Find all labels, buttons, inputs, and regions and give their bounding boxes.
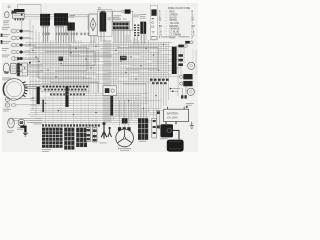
label: switch table header: [113, 18, 127, 21]
switch: clutch lever switch: [2, 48, 23, 54]
spark plugs: [181, 95, 187, 98]
harness end connector (dark, below band): [110, 96, 113, 116]
wire: coil leads: [170, 86, 186, 95]
lamp: rear right turn signal: [188, 62, 195, 69]
connector bar (6P, centre): [65, 86, 68, 107]
lamp: position lamp: [2, 55, 23, 61]
svg-text:O: O: [159, 29, 161, 31]
neutral / gear switch table: [138, 118, 148, 141]
svg-text:BLACK: BLACK: [170, 16, 178, 19]
svg-text:LG: LG: [192, 34, 195, 36]
tail light label: [186, 103, 194, 106]
svg-text:O: O: [192, 29, 194, 31]
headlight: [3, 79, 27, 100]
speedometer lamp body: [5, 12, 10, 18]
switch: front brake light switch: [2, 41, 23, 47]
label: regulator: [108, 18, 112, 21]
svg-text:BR: BR: [192, 26, 196, 28]
starter relay box: [103, 86, 117, 96]
switch row above ignition: [15, 57, 20, 60]
svg-text:LB: LB: [159, 32, 162, 34]
wire junctions: [29, 44, 164, 116]
rectifier box with diode bridge: [89, 14, 97, 36]
legend: wire colour table: [159, 8, 195, 39]
instrument cluster housing: [12, 13, 24, 18]
svg-text:BROWN: BROWN: [170, 26, 179, 28]
connector stubs right of bar: [178, 54, 183, 66]
wire harness band (main loom): [103, 40, 112, 122]
wire bundle: vertical harness runs: [30, 20, 196, 125]
main fuse (dark): [121, 9, 130, 13]
alternator coil connector (dark): [122, 118, 128, 123]
connector strip row (secondary): [50, 94, 85, 96]
connector: harness lead 2: [178, 45, 187, 48]
regulator (dark canister): [100, 11, 107, 32]
label: ignition switch leads: [44, 14, 51, 21]
alternator stator coil pads: [118, 127, 131, 131]
label: alternator: [118, 148, 131, 151]
svg-text:WIRE COLOR CODE: WIRE COLOR CODE: [168, 8, 191, 10]
instrument cluster connector (dark): [12, 9, 25, 14]
ignition switch contact table: [17, 63, 27, 76]
left edge marks: [1, 34, 3, 44]
svg-text:G: G: [159, 14, 161, 16]
ignition switch rotor: [3, 63, 9, 74]
connector block: handlebar switch (right, wide): [54, 13, 69, 27]
svg-text:WHITE: WHITE: [170, 20, 178, 22]
svg-text:BATTERY: BATTERY: [167, 112, 179, 116]
wire bundle: drops to engine components: [132, 100, 147, 118]
label: ignition switch: [2, 78, 11, 81]
wire: instrument cluster feed pair: [22, 15, 88, 31]
diode box: [152, 118, 157, 138]
speedometer bulb: [8, 6, 10, 8]
wire: main fuse loop: [98, 11, 133, 30]
connector bar (4P, left): [37, 87, 40, 104]
main 9P connector (tall dark bar): [172, 47, 177, 74]
wire: cluster over-loop: [15, 5, 41, 15]
terminal row above switch tables: [42, 124, 100, 126]
ground symbol: battery earth: [190, 122, 194, 129]
battery: [164, 106, 189, 122]
horn: [7, 118, 14, 133]
svg-text:PINK: PINK: [170, 37, 176, 39]
wire: battery to starter: [166, 122, 179, 140]
svg-text:BR: BR: [159, 26, 163, 28]
relay: starter cutoff (small dark): [120, 56, 127, 60]
connector block: combination switch (left): [40, 14, 50, 27]
lamp: front left turn signal: [2, 34, 23, 40]
switch table: rear brake: [92, 128, 97, 143]
switch table: front brake: [86, 128, 90, 142]
svg-text:LG: LG: [159, 34, 162, 36]
terminal column list: [133, 15, 139, 36]
main fuse holder: [157, 111, 160, 129]
clutch switch connector (dark pair): [140, 14, 147, 34]
component: small relay mid-left: [59, 57, 63, 61]
pilot lamp: neutral indicator: [5, 103, 16, 107]
connector row right: [150, 79, 169, 85]
svg-text:ORANGE: ORANGE: [170, 28, 180, 31]
connector strip row (main junction): [41, 85, 90, 92]
oil pressure switch (forked): [100, 122, 107, 143]
label box top right: [151, 36, 189, 39]
switch table: engine stop / starter: [112, 21, 129, 30]
ground lead (dark elbow): [20, 127, 27, 136]
svg-text:LT. GREEN: LT. GREEN: [170, 34, 182, 36]
node: ignition junction dot: [29, 62, 31, 64]
label: indicator lamps: [3, 109, 11, 112]
node: cluster junction: [21, 14, 23, 16]
sidestand switch (small fork): [108, 127, 112, 137]
svg-text:LT. BLUE: LT. BLUE: [170, 32, 180, 34]
svg-text:LB: LB: [192, 32, 195, 34]
lamp: front right turn signal: [2, 27, 23, 33]
lamp: rear left turn signal: [187, 88, 194, 95]
label: handlebar switch title: [70, 15, 76, 18]
connector stub lower-left: [42, 100, 44, 113]
svg-text:G: G: [192, 14, 194, 16]
starter magnetic switch: [160, 124, 173, 139]
wire bundle: lower runs: [30, 121, 160, 125]
connector block: starter switch (small dark): [67, 22, 74, 30]
speedometer label: [3, 21, 10, 26]
turn signal relay: [17, 119, 25, 130]
labels: wire tags under switch blocks: [43, 33, 90, 36]
label: fuse text block: [112, 15, 121, 19]
switch table: dimmer switch: [64, 128, 74, 150]
ignition switch body: [10, 63, 16, 73]
switch table: horn / starter: [76, 128, 87, 147]
wire: headlight leads: [24, 85, 41, 89]
cluster terminals: [15, 19, 24, 21]
starter motor: [167, 140, 184, 152]
label: switch tables: [42, 149, 51, 152]
wire bundle: horizontal harness runs: [12, 31, 180, 125]
wire loop routes: [33, 44, 158, 102]
switch table: turn signal switch: [42, 128, 63, 148]
svg-text:RED: RED: [170, 12, 175, 14]
wire: regulator loop: [97, 7, 112, 36]
pilot lamp: high beam indicator: [5, 97, 16, 101]
svg-text:12V 12AH: 12V 12AH: [167, 117, 178, 120]
wire: alternator feeds: [120, 100, 129, 127]
svg-text:GREEN: GREEN: [170, 14, 179, 16]
svg-text:YELLOW: YELLOW: [170, 23, 180, 25]
legend: symbol strip: [150, 6, 158, 41]
ignition coils: [180, 74, 193, 86]
alternator: [116, 129, 134, 147]
connector: harness lead 1: [185, 41, 193, 44]
